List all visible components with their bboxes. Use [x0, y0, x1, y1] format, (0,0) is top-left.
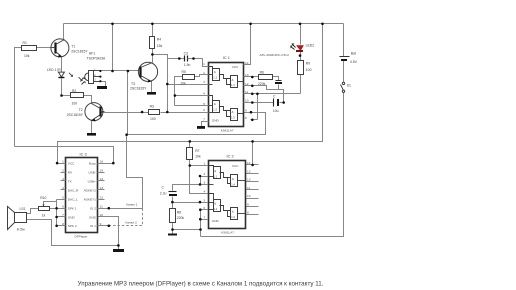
svg-text:8: 8: [245, 116, 247, 120]
IC2 gate 2.4: [231, 175, 238, 187]
node IC1 pin8: [251, 119, 254, 122]
svg-text:GND: GND: [68, 215, 76, 219]
node R4 C3 tap: [151, 53, 154, 56]
op-amp U3 IC3 DFPlayer: [61, 151, 109, 238]
wire IC3 pin 7 tick: [57, 216, 61, 218]
svg-text:6: 6: [203, 206, 205, 210]
svg-text:9: 9: [247, 202, 249, 206]
wire T3 emitter to ground: [151, 82, 153, 93]
svg-text:IC 1: IC 1: [223, 55, 230, 60]
node VCC rail R7: [189, 140, 192, 143]
node IC3 pin8: [55, 225, 58, 228]
wire IC2 pin 14 to VCC rail: [252, 142, 254, 165]
wire IC2 right stubs: [246, 164, 259, 166]
svg-text:1.3: 1.3: [231, 116, 235, 120]
wire C6 top to IC2 pin 3: [173, 185, 208, 191]
ground under T3: [147, 92, 156, 95]
svg-text:USB-: USB-: [88, 171, 95, 175]
svg-text:2.2u: 2.2u: [160, 192, 167, 196]
ground under T2: [87, 133, 96, 136]
svg-text:R1: R1: [23, 41, 27, 45]
node top rail at R4: [151, 23, 154, 26]
node junction dots: [55, 23, 324, 247]
svg-text:13: 13: [245, 73, 249, 77]
IC1 internal links: [209, 67, 213, 71]
op-amp U1 IC1 K561LA7: [203, 55, 250, 133]
svg-text:Busy: Busy: [89, 162, 96, 166]
svg-text:1.4: 1.4: [231, 182, 235, 186]
ground IC1 pin 7: [197, 126, 205, 129]
svg-text:DAC_R: DAC_R: [68, 188, 79, 192]
resistor R7: [187, 148, 201, 160]
svg-text:10: 10: [100, 213, 104, 217]
svg-text:R6: R6: [260, 70, 264, 74]
wire IC1 pin 10 to C5: [251, 102, 274, 104]
node C5 right: [282, 101, 285, 104]
svg-text:12: 12: [100, 196, 104, 200]
IR receiver HF1 TSOP34236: [81, 52, 106, 85]
wire T2 emitter to ground: [91, 121, 93, 134]
wire LED2 anode to rail: [300, 24, 302, 45]
svg-text:1.2: 1.2: [213, 107, 217, 111]
node R7 pin1: [189, 164, 192, 167]
svg-text:2: 2: [203, 71, 205, 75]
svg-text:2SC1815Y: 2SC1815Y: [130, 87, 147, 91]
node HF1 pin1: [99, 70, 101, 72]
svg-text:5: 5: [203, 102, 205, 106]
wire IC3 pin 8 tick: [57, 225, 61, 227]
svg-text:10k: 10k: [195, 155, 201, 159]
wire T1 collector to rail: [63, 24, 65, 40]
svg-text:GND: GND: [212, 219, 220, 223]
node V1 pin3: [166, 83, 169, 86]
transistor T1: [51, 39, 89, 58]
wire pot right to IC3 pin 6: [50, 208, 61, 210]
svg-text:10: 10: [245, 99, 249, 103]
resistor R2: [71, 89, 84, 106]
node bottom rail corner: [199, 228, 202, 231]
wire IC3 pin 1 tick: [58, 163, 61, 165]
wire battery to rail: [343, 24, 345, 57]
IC1 pin ticks left: [205, 66, 209, 68]
svg-text:Bat: Bat: [351, 52, 356, 56]
svg-text:T3: T3: [131, 82, 135, 86]
svg-text:2: 2: [203, 172, 205, 176]
node IC2 pin6: [199, 208, 202, 211]
svg-text:R4: R4: [157, 38, 161, 42]
node IC1 pin12: [251, 85, 254, 88]
op-amp U2 IC2 K561LA7: [203, 154, 250, 235]
node pin5 tie: [199, 201, 202, 204]
wire IC1 pin 13 to R6: [251, 76, 259, 78]
transistor T2: [67, 103, 105, 122]
svg-text:100: 100: [306, 68, 312, 72]
resistor R9: [298, 61, 312, 75]
svg-text:R8: R8: [177, 211, 181, 215]
wire IC2 pin 7 tick: [201, 219, 208, 221]
svg-text:Канал 1: Канал 1: [126, 203, 138, 207]
svg-text:ADKEY1: ADKEY1: [84, 198, 96, 202]
svg-text:10u: 10u: [273, 109, 279, 113]
svg-text:10k: 10k: [180, 81, 186, 85]
capacitor C4: [275, 81, 282, 85]
node IC3 pin6: [55, 207, 58, 210]
svg-text:15: 15: [100, 168, 104, 172]
svg-text:ADKEY2: ADKEY2: [84, 188, 96, 192]
resistor R1: [22, 41, 37, 58]
wire C6 bottom to R8: [172, 197, 174, 209]
svg-text:100: 100: [150, 117, 156, 121]
svg-text:IC 2: IC 2: [227, 154, 234, 159]
wire C4 to pin 12 line: [278, 85, 280, 90]
svg-text:2SC1815Y: 2SC1815Y: [71, 50, 88, 54]
node IC3 pin7: [55, 216, 58, 219]
IC1 pin ticks right: [244, 64, 251, 66]
wire R4 node to C3: [153, 55, 168, 59]
resistor R6: [258, 70, 273, 86]
svg-text:1.3: 1.3: [231, 215, 235, 219]
svg-text:7: 7: [203, 118, 205, 122]
wire VCC rail 2: [58, 24, 323, 164]
svg-text:220k: 220k: [177, 216, 185, 220]
svg-text:1k: 1k: [42, 213, 46, 217]
svg-text:R10: R10: [40, 196, 46, 200]
wire left vertical from R1 to Busy line: [15, 48, 22, 147]
wire R5 left lead and vertical V2: [175, 77, 183, 106]
node IC3 pin1: [56, 162, 59, 165]
wire pot wiper to IC3 pin 5: [44, 202, 57, 205]
wire R8 bottom to ground node: [172, 223, 174, 234]
svg-text:LED 1 IR: LED 1 IR: [47, 68, 61, 72]
svg-text:HF1: HF1: [89, 52, 96, 56]
svg-text:LS1: LS1: [20, 207, 26, 211]
svg-text:3: 3: [203, 181, 205, 185]
transistor T3: [130, 62, 158, 90]
svg-text:2SC1815Y: 2SC1815Y: [67, 113, 84, 117]
wire IC1 pin 4 line: [175, 95, 205, 97]
wire speaker bottom line: [27, 220, 119, 246]
node HF1 T3 base: [127, 70, 130, 73]
svg-text:16: 16: [100, 159, 104, 163]
wire R4 bottom to T3 collector: [152, 49, 154, 63]
wire HF1 supply vertical: [112, 24, 114, 71]
wire C3 left lead: [168, 58, 185, 60]
svg-text:VCC: VCC: [68, 162, 75, 166]
wire IC1 pin 11 to pin 8: [257, 94, 259, 120]
node C3 left: [178, 57, 181, 60]
IC2 gate 2.3: [231, 208, 238, 220]
wire IC1 pin7 ground stub: [202, 122, 205, 127]
node IC1 pin13: [251, 76, 254, 79]
wire R9 to pin 11 line: [300, 75, 302, 94]
svg-text:R9: R9: [306, 62, 310, 66]
wire IC1 pin 12 jog line: [251, 86, 284, 103]
svg-text:TSOP34236: TSOP34236: [87, 57, 106, 61]
wire R1 to T1 base: [37, 47, 52, 49]
svg-text:8: 8: [247, 211, 249, 215]
svg-text:R2: R2: [72, 89, 76, 93]
svg-text:USB+: USB+: [88, 179, 96, 183]
svg-text:14: 14: [245, 61, 249, 65]
switch S1: [341, 82, 352, 92]
wire R6 right to C4: [273, 77, 279, 81]
wire HF1 output to T3 base: [101, 70, 140, 72]
node pin11 branch: [256, 93, 259, 96]
resistor R4: [150, 37, 163, 49]
svg-text:4: 4: [203, 92, 205, 96]
node pin9 rail left end: [125, 133, 128, 136]
node IC1 pin11: [251, 93, 254, 96]
svg-text:4: 4: [203, 190, 205, 194]
wire HF1 pin3 to ground: [101, 82, 106, 87]
node bottom ground: [117, 244, 120, 247]
resistor R3: [149, 105, 160, 121]
svg-text:GND: GND: [89, 215, 97, 219]
svg-text:1.1: 1.1: [214, 174, 218, 178]
node top rail at VCC drop: [321, 23, 324, 26]
svg-text:K561LA7: K561LA7: [221, 128, 234, 132]
IC1 gate 1.4: [231, 76, 238, 88]
svg-text:11: 11: [247, 186, 250, 190]
wire T2 to R3: [101, 112, 149, 114]
node IC3 pin9: [108, 225, 111, 228]
node IC2 pin2: [199, 175, 202, 178]
wire IC2 pins 6 7 tie: [200, 210, 202, 230]
node HF1 pin2: [99, 76, 101, 78]
svg-text:220k: 220k: [258, 82, 266, 86]
IC2 internal links: [209, 166, 214, 170]
svg-text:100: 100: [72, 102, 78, 106]
wire IC3 pin 10 to bottom ground: [98, 217, 119, 246]
svg-text:3: 3: [62, 177, 64, 181]
capacitor C6 electrolytic 2.2u: [160, 186, 177, 196]
svg-text:5: 5: [203, 198, 205, 202]
node T2 base line: [141, 111, 144, 114]
node IC2 pin14: [251, 164, 254, 167]
wire top supply rail: [64, 23, 344, 25]
wire R7 bottom to IC2 pin 1: [190, 160, 208, 166]
svg-text:10: 10: [247, 194, 251, 198]
node IC3 pin16: [112, 162, 115, 165]
wire LED2 cathode to R9: [300, 52, 302, 61]
battery Bat 4.5V: [340, 52, 358, 65]
wire R7 node to IC2 pin 4: [190, 166, 208, 194]
wire vertical V1 C3 to R3 node: [167, 59, 169, 113]
node IC1 pin10: [251, 101, 254, 104]
svg-text:14: 14: [100, 177, 104, 181]
wire bottom return rail: [201, 93, 344, 237]
svg-text:9: 9: [100, 222, 102, 226]
wire R7 top to VCC rail: [189, 142, 191, 148]
svg-text:LED2: LED2: [306, 44, 315, 48]
node top rail at HF1: [111, 23, 114, 26]
svg-text:12: 12: [247, 169, 251, 173]
svg-text:R3: R3: [150, 105, 154, 109]
svg-text:Канал 2: Канал 2: [126, 220, 138, 224]
node IC1 pin9: [250, 111, 253, 114]
svg-text:11: 11: [245, 90, 248, 94]
svg-text:1.2: 1.2: [214, 207, 218, 211]
wire cap node to IC2 pin 5: [173, 202, 208, 204]
speaker LS1: [8, 207, 27, 232]
wire IC1 pin 8 tick: [251, 119, 258, 121]
wire C5 right lead: [280, 102, 284, 104]
svg-text:K561LA7: K561LA7: [221, 231, 234, 235]
wire pin9 net rail: [127, 113, 266, 135]
svg-text:C3: C3: [184, 52, 188, 56]
wire R3 to IC1 pin 6: [161, 112, 205, 114]
svg-text:APL-4603URC-3.5cd: APL-4603URC-3.5cd: [260, 53, 289, 57]
svg-text:IO 2: IO 2: [90, 207, 96, 211]
svg-text:6: 6: [203, 108, 205, 112]
svg-text:1.4: 1.4: [231, 83, 235, 87]
svg-text:VCC: VCC: [232, 164, 239, 168]
IC1 gate 1.1: [213, 69, 220, 81]
svg-text:1: 1: [62, 159, 64, 163]
wire battery to switch: [343, 61, 345, 83]
svg-text:1: 1: [203, 62, 205, 66]
wire IC2 pin 6 tick: [201, 209, 208, 211]
svg-text:13: 13: [247, 178, 251, 182]
svg-text:SPK 2: SPK 2: [68, 224, 77, 228]
IC1 gate 1.2: [213, 101, 220, 113]
node LED1 R2 corner: [60, 94, 63, 97]
svg-text:12: 12: [245, 82, 249, 86]
svg-text:8: 8: [62, 222, 64, 226]
svg-text:R5: R5: [182, 70, 186, 74]
LED LED2 red: [260, 44, 315, 57]
wire channel 2 dashed link: [109, 209, 143, 226]
svg-text:7: 7: [62, 213, 64, 217]
svg-text:2: 2: [62, 168, 64, 172]
svg-text:5: 5: [62, 196, 64, 200]
IC1 gate 1.3: [231, 109, 238, 121]
wire LED1 cathode to R2: [62, 79, 71, 96]
node top rail at LED2: [299, 23, 302, 26]
IC2 gate 2.2: [214, 200, 221, 212]
svg-text:11: 11: [100, 204, 103, 208]
wire node A vertical HF1 line to pin9 rail: [127, 71, 129, 135]
wire SPK tie vertical: [56, 200, 58, 226]
resistor R5: [180, 70, 194, 85]
IC2 gate 2.1: [214, 167, 221, 179]
resistor R8: [170, 209, 185, 223]
wire IC1 pin 11 line: [251, 93, 301, 95]
svg-text:4.5V: 4.5V: [350, 60, 358, 64]
svg-text:15k: 15k: [157, 44, 163, 48]
LED LED1 infrared: [47, 68, 83, 81]
IC3 pin ticks right: [98, 163, 105, 165]
svg-text:3: 3: [203, 80, 205, 84]
svg-text:TX: TX: [68, 179, 72, 183]
svg-text:DFPlayer: DFPlayer: [75, 235, 88, 239]
wire speaker top to pot: [27, 209, 39, 214]
wire channel 1 link to IC3 pin 11: [109, 135, 143, 209]
node C3 right: [192, 57, 195, 60]
node IC2 pin7: [199, 218, 202, 221]
svg-text:RX: RX: [68, 171, 72, 175]
node cap top tie: [199, 183, 202, 186]
svg-text:SPK 1: SPK 1: [68, 207, 77, 211]
node cap bottom: [171, 201, 174, 204]
node HF1 pin3: [99, 80, 101, 82]
node HF1 supply junction: [111, 70, 114, 73]
wire R5 right to IC1 pin 2: [195, 75, 205, 77]
svg-text:GND: GND: [212, 119, 220, 123]
wire R2 to T2: [84, 96, 92, 104]
potentiometer R10: [39, 196, 50, 218]
svg-text:1: 1: [203, 162, 205, 166]
svg-text:VCC: VCC: [232, 65, 239, 69]
ground under HF1: [97, 86, 107, 89]
node IC3 pin11: [108, 207, 111, 210]
svg-text:1.5n: 1.5n: [184, 63, 191, 67]
svg-text:IC 3: IC 3: [80, 151, 87, 156]
node R8 bottom: [171, 228, 174, 231]
wire ground node to bottom rail: [173, 230, 201, 237]
svg-text:6: 6: [62, 205, 64, 209]
wire IC1 pin 14 to rail: [244, 24, 251, 65]
svg-text:DAC_L: DAC_L: [68, 198, 78, 202]
node V2 pin4: [174, 94, 177, 97]
svg-text:10k: 10k: [24, 54, 30, 58]
svg-text:1.1: 1.1: [213, 75, 217, 79]
node VCC rail IC2: [251, 140, 254, 143]
ground under R8: [168, 234, 177, 236]
wire tie to IC2 pin 2: [201, 177, 208, 185]
svg-text:14: 14: [247, 161, 251, 165]
ground bottom main: [113, 246, 124, 253]
svg-text:IO 1: IO 1: [90, 224, 96, 228]
wire IC1 pin 3 line: [168, 84, 205, 86]
svg-text:T1: T1: [71, 45, 75, 49]
node LED2 cathode: [299, 54, 302, 57]
svg-text:S1: S1: [347, 84, 351, 88]
wire C3 right to IC1 pin 1: [191, 59, 205, 67]
svg-text:7: 7: [203, 215, 205, 219]
wire IC1 pin 9 tick: [244, 112, 251, 114]
svg-text:13: 13: [100, 186, 104, 190]
svg-text:8 Ом: 8 Ом: [17, 228, 25, 232]
wire T1 emitter to LED1: [61, 57, 63, 73]
IC3 pin ticks left: [61, 163, 66, 165]
svg-text:9: 9: [245, 108, 247, 112]
node top rail at IC1 pin14: [249, 23, 252, 26]
capacitor C3: [184, 52, 191, 67]
svg-text:T2: T2: [79, 108, 83, 112]
wire IC1 pin 5 line: [175, 105, 205, 107]
svg-text:4: 4: [62, 186, 64, 190]
capacitor C5 electrolytic 10u: [273, 95, 279, 113]
svg-text:Управление MP3 плеером (DFPlay: Управление MP3 плеером (DFPlayer) в схем…: [78, 280, 324, 287]
node R3 right: [166, 111, 169, 114]
wire busy line to IC3 pin 16: [15, 147, 114, 164]
wire R4 top to rail: [152, 24, 154, 37]
svg-text:R7: R7: [195, 149, 199, 153]
